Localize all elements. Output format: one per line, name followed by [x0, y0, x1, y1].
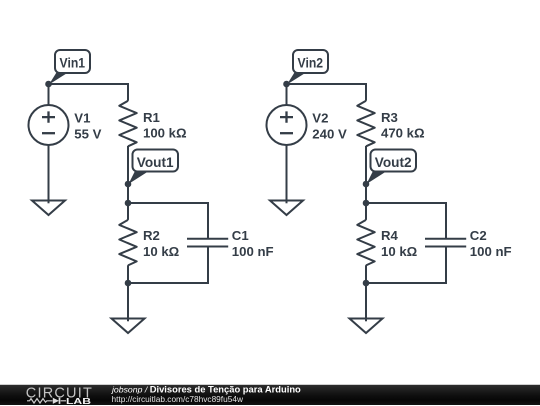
svg-text:http://circuitlab.com/c78hvc89: http://circuitlab.com/c78hvc89fu54w	[112, 394, 244, 404]
svg-text:Vin2: Vin2	[298, 55, 324, 71]
svg-text:R3: R3	[381, 110, 398, 125]
svg-text:Vout2: Vout2	[375, 154, 412, 170]
svg-text:10 kΩ: 10 kΩ	[381, 244, 418, 259]
svg-text:100 nF: 100 nF	[232, 244, 274, 259]
svg-text:V2: V2	[312, 110, 328, 125]
svg-text:100 nF: 100 nF	[470, 244, 512, 259]
svg-text:R4: R4	[381, 228, 399, 243]
svg-text:470 kΩ: 470 kΩ	[381, 126, 425, 141]
svg-text:C1: C1	[232, 228, 249, 243]
svg-text:jobsonp / Divisores de Tenção: jobsonp / Divisores de Tenção para Ardui…	[111, 385, 301, 394]
svg-text:Vin1: Vin1	[60, 55, 86, 71]
svg-text:LAB: LAB	[66, 396, 91, 406]
svg-text:R2: R2	[143, 228, 160, 243]
svg-text:100 kΩ: 100 kΩ	[143, 126, 187, 141]
svg-text:55 V: 55 V	[74, 126, 101, 141]
svg-text:R1: R1	[143, 110, 160, 125]
svg-text:10 kΩ: 10 kΩ	[143, 244, 180, 259]
svg-text:C2: C2	[470, 228, 487, 243]
svg-text:Vout1: Vout1	[137, 154, 174, 170]
svg-text:240 V: 240 V	[312, 126, 347, 141]
svg-text:V1: V1	[74, 110, 90, 125]
